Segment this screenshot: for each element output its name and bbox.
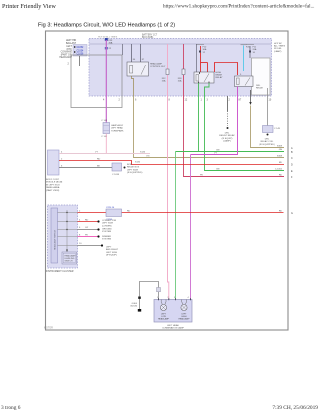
left headlamp combination lamp box [154, 297, 192, 322]
svg-text:DRL: DRL [265, 139, 270, 141]
cluster row3: dark to dot [78, 227, 113, 233]
svg-text:(LAMP): (LAMP) [274, 50, 282, 53]
green wire A from relay R2 to right edge with branch down [199, 83, 285, 152]
link label box top-left [73, 45, 87, 57]
svg-text:C 143: C 143 [101, 136, 108, 138]
svg-text:C 143: C 143 [101, 120, 108, 122]
svg-text:LEFT HEAD: LEFT HEAD [111, 127, 123, 130]
svg-text:RELAY BOX: RELAY BOX [127, 166, 140, 169]
svg-text:HEADLAMP: HEADLAMP [59, 56, 72, 59]
svg-text:TURN/PARK: TURN/PARK [111, 129, 124, 132]
svg-text:(LAMP): (LAMP) [223, 140, 231, 143]
BCM row1 pale wire [59, 153, 150, 155]
red link from relay R2 to relay R3 [215, 63, 238, 76]
crimson wire down from fuse F3, bends right at y176.5 to edge [184, 75, 285, 177]
DRL resistor chain [219, 96, 235, 143]
svg-text:RD: RD [127, 211, 131, 213]
high beam bulb [181, 304, 187, 310]
wire stub from BJB divider to headlamp assembly pin [122, 44, 124, 55]
svg-text:GROUND: GROUND [102, 229, 112, 231]
svg-text:7:39 CH, 25/06/2019: 7:39 CH, 25/06/2019 [272, 405, 318, 411]
instrument cluster dashed box [48, 205, 78, 268]
svg-text:C: C [291, 157, 293, 160]
svg-text:D: D [291, 164, 293, 167]
BCM row2 red wire with jog [59, 159, 284, 165]
svg-text:RD: RD [85, 220, 89, 222]
wire color-code labels midway [146, 150, 220, 177]
svg-text:SWITCH: SWITCH [65, 261, 73, 263]
svg-text:IN LEFT KICK: IN LEFT KICK [46, 184, 60, 186]
svg-text:LEFT SIDE: LEFT SIDE [102, 223, 114, 225]
svg-text:LEFT SIDE: LEFT SIDE [106, 252, 118, 254]
svg-text:CONN/HID: CONN/HID [61, 52, 73, 54]
cluster row5: dark to dot [78, 243, 119, 257]
top-right header text [274, 42, 286, 53]
svg-text:HOT AT ALL TIMES: HOT AT ALL TIMES [98, 36, 118, 39]
fuse F3 (crimson circuit) [178, 44, 185, 83]
red feed stubs into relay R2 [196, 45, 208, 73]
svg-text:GD136: GD136 [130, 306, 138, 308]
svg-text:GN: GN [216, 150, 220, 152]
connector C143 on magenta wire [101, 120, 124, 138]
svg-text:ALL TIMES: ALL TIMES [274, 45, 286, 48]
svg-text:LEFT HID: LEFT HID [66, 40, 77, 42]
pink wire continues to BCM row [105, 134, 107, 155]
svg-text:CONTROL RLY: CONTROL RLY [150, 66, 166, 68]
svg-text:https://www1.shopkeypro.com/Pr: https://www1.shopkeypro.com/PrintIndex?c… [163, 3, 314, 10]
svg-text:GN: GN [279, 149, 283, 151]
svg-text:BOX (BJB): BOX (BJB) [142, 37, 153, 39]
svg-text:C220 14: C220 14 [106, 207, 115, 209]
svg-text:LEFT: LEFT [66, 46, 72, 48]
svg-text:COMBINATION LAMP: COMBINATION LAMP [162, 327, 184, 330]
wire from link box down [79, 56, 81, 66]
svg-text:G: G [291, 212, 293, 215]
svg-text:30A: 30A [203, 48, 207, 51]
white outline box (headlamp assembly) [71, 55, 122, 108]
svg-text:HEADLAMP: HEADLAMP [178, 318, 190, 321]
ground path from lamp [130, 282, 160, 312]
svg-text:HEADLAMP: HEADLAMP [158, 318, 170, 321]
svg-text:BCM: BCM [127, 164, 132, 166]
pink wire down from fuse F2 [168, 75, 169, 300]
svg-text:LEFT SIDE: LEFT SIDE [127, 169, 139, 171]
svg-text:C 1035: C 1035 [112, 174, 120, 176]
svg-text:RELAY: RELAY [216, 76, 224, 79]
olive wire from relay R1 down and right to edge [132, 76, 285, 158]
green wire B from relay R2, jog left, to right edge [205, 83, 285, 171]
svg-text:PANEL AREA: PANEL AREA [46, 186, 60, 189]
svg-text:OG: OG [146, 156, 150, 158]
svg-text:INSTRUMENT CLUSTER: INSTRUMENT CLUSTER [46, 270, 74, 273]
BCM row3 dark wire to connector [59, 163, 143, 176]
svg-text:SYSTEM: SYSTEM [102, 231, 111, 233]
relay R3 (DRL relay) [235, 76, 254, 87]
cluster internal branches [58, 213, 78, 246]
low beam bulb [160, 304, 166, 310]
magenta wire from fuse down to connector C143 [105, 40, 107, 123]
svg-text:RD: RD [97, 159, 101, 161]
svg-text:S308: S308 [277, 156, 283, 158]
svg-text:(IF EQUIP): (IF EQUIP) [106, 255, 117, 257]
svg-text:RELAY: RELAY [256, 87, 264, 90]
svg-text:Printer Friendly View: Printer Friendly View [2, 3, 56, 10]
BCM small box [48, 150, 60, 175]
cyan stub [243, 46, 245, 72]
svg-text:(PART VIEW): (PART VIEW) [46, 189, 60, 192]
svg-text:LEFT HEAD: LEFT HEAD [167, 324, 179, 327]
svg-text:(PART OF): (PART OF) [61, 53, 72, 56]
svg-text:S140: S140 [140, 152, 146, 154]
outer diagram border [46, 31, 289, 330]
green branch down to lamp [175, 152, 177, 301]
right edge wire labels and off-page letters [275, 146, 283, 213]
svg-text:RESIST RELAY: RESIST RELAY [219, 134, 235, 137]
svg-text:DRL: DRL [225, 133, 230, 135]
fuse F11 feed into power distribution box [246, 45, 257, 59]
svg-text:LEFT: LEFT [106, 247, 112, 249]
fuse F2 (pink circuit) [162, 44, 169, 83]
svg-text:RD: RD [279, 162, 283, 164]
svg-text:HEADLAMP SWITCH: HEADLAMP SWITCH [54, 229, 57, 250]
magenta wire from relay R3 down, left at y155, then down at x191 to lamp [191, 87, 238, 155]
svg-text:G304: G304 [132, 303, 138, 305]
svg-text:(P/O): (P/O) [67, 49, 73, 51]
svg-text:AND RIGHT: AND RIGHT [106, 248, 119, 251]
cluster row4: pink to dot [78, 235, 112, 241]
svg-text:(IF EQUIP): (IF EQUIP) [222, 138, 233, 140]
svg-text:GN: GN [216, 169, 220, 171]
svg-text:(LOWER): (LOWER) [102, 225, 112, 227]
pin numbers above box [157, 297, 190, 299]
svg-text:BODY CONT: BODY CONT [46, 179, 60, 181]
svg-text:40A: 40A [109, 42, 113, 45]
svg-text:C1052: C1052 [77, 47, 84, 49]
svg-text:DIMMER: DIMMER [102, 236, 111, 238]
svg-text:SYSTEM: SYSTEM [102, 239, 111, 241]
relay R1 (headlamp relay) [127, 44, 149, 76]
svg-text:S132: S132 [135, 162, 141, 164]
gray wire from white box down to connector C1048 [259, 88, 280, 146]
cluster row2: red to dot [78, 220, 117, 228]
fuse chip for magenta feed [105, 38, 113, 50]
svg-text:C 149: C 149 [274, 128, 281, 130]
battery junction box (BJB) dashed lavender box [89, 39, 272, 97]
svg-text:GY: GY [85, 227, 89, 229]
svg-text:BEAM: BEAM [216, 74, 222, 77]
svg-text:(IF EQUIPPED): (IF EQUIPPED) [259, 144, 275, 146]
svg-text:RELAY COIL: RELAY COIL [261, 140, 274, 143]
cluster row1: long red to right edge with inline connector [78, 207, 284, 221]
svg-text:10A: 10A [178, 80, 182, 83]
svg-text:S309: S309 [277, 146, 283, 148]
svg-text:15A: 15A [162, 80, 166, 83]
svg-text:HOT AT: HOT AT [274, 42, 282, 45]
svg-text:(IF EQUIPPED): (IF EQUIPPED) [127, 172, 143, 174]
black stub with arrow and olive wire to right edge [249, 90, 284, 148]
svg-text:HEADLAMP: HEADLAMP [150, 63, 163, 66]
relay R2 (high beam relay) [194, 44, 214, 83]
svg-text:RD: RD [279, 175, 283, 177]
svg-text:MODULE (BCM): MODULE (BCM) [46, 182, 63, 184]
svg-text:Fig 3: Headlamps Circuit, W/O: Fig 3: Headlamps Circuit, W/O LED Headla… [38, 23, 175, 29]
svg-text:20A: 20A [253, 48, 257, 51]
svg-text:LAMP ASSY: LAMP ASSY [111, 124, 124, 127]
svg-text:3 trong 6: 3 trong 6 [1, 405, 21, 411]
white inner box (power distribution) [252, 58, 271, 95]
svg-text:MOTOR: MOTOR [44, 327, 53, 330]
left header text block [59, 46, 72, 59]
BCM caption [46, 179, 63, 192]
svg-text:CONNECTOR: CONNECTOR [102, 220, 116, 222]
svg-text:C-1052: C-1052 [275, 169, 283, 171]
svg-text:C1054: C1054 [77, 50, 84, 52]
